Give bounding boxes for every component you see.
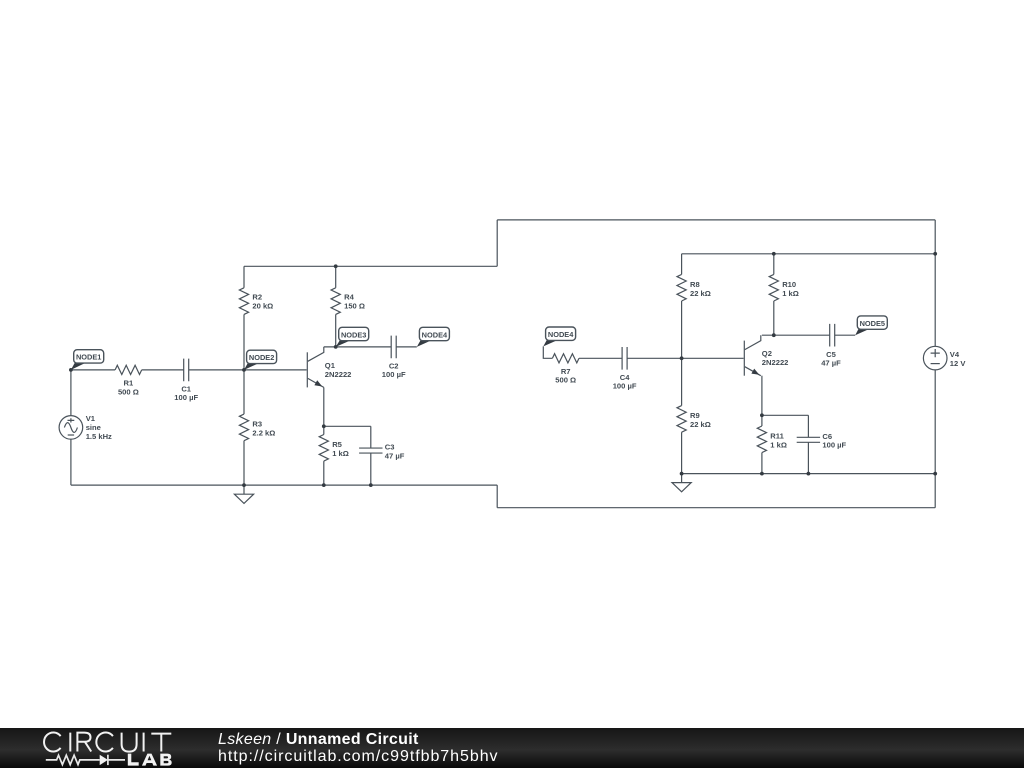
svg-text:C5: C5: [826, 350, 836, 359]
wire emitter junction to C6: [762, 414, 809, 416]
wire node1 vertical to V1: [70, 370, 72, 416]
wire node2 to R3: [243, 370, 245, 414]
svg-text:R1: R1: [124, 379, 134, 388]
svg-text:Q2: Q2: [762, 349, 772, 358]
wire Q2 collector to C5: [762, 334, 830, 336]
svg-text:150 Ω: 150 Ω: [344, 302, 365, 311]
node NODE3 flag: [336, 327, 369, 347]
wire Q1 collector to C2: [324, 346, 391, 348]
wire ground stub right: [681, 474, 683, 483]
svg-text:100 µF: 100 µF: [382, 370, 406, 379]
svg-text:R7: R7: [561, 367, 571, 376]
junction bottom rail at V4 column: [933, 472, 937, 476]
capacitor C1: [184, 359, 189, 382]
junction node1: [69, 368, 73, 372]
svg-text:1 kΩ: 1 kΩ: [332, 449, 349, 458]
svg-text:1 kΩ: 1 kΩ: [782, 289, 799, 298]
junction emitter R11 C6: [760, 413, 764, 417]
wire C6 top lead: [807, 415, 809, 437]
wire inner top rail right stage: [682, 253, 936, 255]
resistor R9: [677, 406, 686, 433]
label C6 value: [822, 432, 846, 450]
svg-text:C1: C1: [181, 384, 191, 393]
footer bar: [0, 728, 1024, 768]
svg-text:500 Ω: 500 Ω: [555, 376, 576, 385]
junction ground rail at R5: [322, 483, 326, 487]
svg-text:1.5 kHz: 1.5 kHz: [86, 432, 112, 441]
junction ground rail at C3: [369, 483, 373, 487]
ground left stage: [234, 494, 253, 503]
svg-text:R10: R10: [782, 280, 796, 289]
junction R4 top rail: [334, 264, 338, 268]
wire V1 bottom to ground rail: [70, 439, 72, 485]
voltage source V4: [923, 346, 947, 370]
wire node2 to Q1 base: [244, 369, 307, 371]
node NODE1 flag: [71, 350, 104, 370]
wire C1 to node2: [189, 369, 244, 371]
wire C3 top lead: [370, 426, 372, 448]
label R10 value: [782, 280, 799, 298]
svg-text:1 kΩ: 1 kΩ: [770, 441, 787, 450]
wire node1 to R1: [71, 369, 115, 371]
resistor R10: [769, 274, 778, 301]
svg-text:47 µF: 47 µF: [821, 359, 841, 368]
svg-text:R9: R9: [690, 411, 700, 420]
svg-text:C4: C4: [620, 373, 630, 382]
junction Q2 collector R10: [772, 333, 776, 337]
wire inner bottom rail right stage: [682, 473, 936, 475]
wire outer left vertical bottom: [496, 485, 498, 508]
label R2 value: [252, 292, 273, 310]
wire base junction to Q2: [682, 357, 744, 359]
wire top rail left stage: [244, 265, 497, 267]
wire C4 to base junction: [627, 357, 682, 359]
label V1 value: [86, 414, 112, 441]
svg-text:R5: R5: [332, 440, 342, 449]
CircuitLab logo: [0, 728, 220, 768]
wire R11 top lead: [761, 415, 763, 426]
junction bottom rail at C6: [807, 472, 811, 476]
resistor R4: [331, 288, 340, 315]
svg-text:C2: C2: [389, 361, 399, 370]
voltage source V1: [59, 416, 83, 440]
capacitor C5: [830, 324, 835, 347]
wire C2 to NODE4 tip: [396, 346, 417, 348]
svg-text:2N2222: 2N2222: [762, 358, 789, 367]
svg-text:22 kΩ: 22 kΩ: [690, 289, 711, 298]
svg-text:22 kΩ: 22 kΩ: [690, 420, 711, 429]
svg-text:C6: C6: [822, 432, 832, 441]
wire V4 bottom vertical: [934, 370, 936, 508]
wire R11 bottom lead: [761, 453, 763, 474]
svg-text:Q1: Q1: [325, 361, 336, 370]
svg-text:V1: V1: [86, 414, 96, 423]
svg-text:sine: sine: [86, 423, 101, 432]
node NODE4 flag (output of stage 1): [417, 327, 450, 347]
wire C6 bottom lead: [807, 442, 809, 473]
label C2 value: [382, 361, 406, 379]
footer title text: [218, 732, 499, 766]
wire R9 bottom lead: [681, 432, 683, 473]
label R4 value: [344, 292, 365, 310]
wire bottom rail left stage: [71, 484, 497, 486]
svg-text:100 µF: 100 µF: [613, 382, 637, 391]
svg-text:NODE5: NODE5: [860, 319, 885, 328]
ground right stage: [672, 483, 691, 492]
junction emitter R5 C3: [322, 424, 326, 428]
label R9 value: [690, 411, 711, 429]
wire Q2 emitter vertical: [761, 376, 763, 416]
capacitor C2: [391, 336, 396, 359]
wire outer right vertical to V4: [934, 220, 936, 347]
svg-text:R2: R2: [252, 292, 262, 301]
node NODE4 flag (input of stage 2): [543, 327, 575, 346]
node NODE2 flag: [244, 350, 277, 370]
wire C3 bottom lead: [370, 453, 372, 485]
resistor R5: [319, 435, 328, 462]
wire R8 bottom lead: [681, 301, 683, 358]
capacitor C6: [797, 437, 820, 442]
wire R5 bottom lead: [323, 461, 325, 485]
label Q1 value: [325, 361, 352, 379]
resistor R1: [115, 365, 142, 374]
svg-text:47 µF: 47 µF: [385, 451, 405, 460]
wire base junction to R9: [681, 358, 683, 405]
wire R10 bottom lead: [773, 301, 775, 335]
svg-text:NODE4: NODE4: [548, 330, 574, 339]
wire outer bottom rail: [497, 507, 935, 509]
wire R5 top lead: [323, 426, 325, 434]
label C5 value: [821, 350, 841, 368]
wire R1 to C1: [142, 369, 184, 371]
wire ground stub left: [243, 485, 245, 494]
junction node3: [334, 345, 338, 349]
wire R4 top lead: [335, 266, 337, 288]
label V4 value: [950, 350, 967, 368]
svg-text:NODE3: NODE3: [341, 330, 366, 339]
svg-text:NODE2: NODE2: [249, 353, 274, 362]
transistor Q2: [744, 335, 761, 376]
label R1 value: [118, 379, 139, 397]
svg-text:12 V: 12 V: [950, 359, 967, 368]
svg-text:R3: R3: [252, 420, 262, 429]
wire outer left vertical top: [496, 220, 498, 266]
wire R2 bottom lead to node2: [243, 314, 245, 370]
junction bottom rail at R9: [680, 472, 684, 476]
label Q2 value: [762, 349, 789, 367]
label C1 value: [174, 384, 198, 402]
svg-text:C3: C3: [385, 443, 395, 452]
svg-text:100 µF: 100 µF: [174, 393, 198, 402]
wire emitter junction to C3: [324, 425, 371, 427]
resistor R8: [677, 274, 686, 301]
wire R8 top lead: [681, 254, 683, 275]
svg-text:NODE1: NODE1: [76, 353, 101, 362]
svg-text:V4: V4: [950, 350, 960, 359]
svg-text:100 µF: 100 µF: [822, 441, 846, 450]
capacitor C4: [622, 347, 627, 370]
wire NODE4 flag to R7: [543, 346, 552, 358]
label C4 value: [613, 373, 637, 391]
wire R4 bottom lead to node3: [335, 314, 337, 347]
svg-text:R11: R11: [770, 431, 784, 440]
junction ground rail at R3: [242, 483, 246, 487]
wire R3 bottom lead to rail: [243, 441, 245, 485]
junction bottom rail at R11: [760, 472, 764, 476]
svg-text:20 kΩ: 20 kΩ: [252, 302, 273, 311]
node NODE5 flag: [855, 316, 887, 335]
resistor R11: [757, 426, 766, 453]
svg-text:2N2222: 2N2222: [325, 370, 352, 379]
svg-text:R4: R4: [344, 292, 354, 301]
junction base R8 R9: [680, 356, 684, 360]
label C3 value: [385, 443, 405, 461]
wire R2 top lead: [243, 266, 245, 288]
capacitor C3: [359, 448, 382, 453]
transistor Q1: [307, 347, 324, 388]
label R3 value: [252, 420, 275, 438]
wire outer top rail: [497, 219, 935, 221]
resistor R3: [239, 414, 248, 441]
wire R10 top lead: [773, 254, 775, 275]
svg-text:500 Ω: 500 Ω: [118, 387, 139, 396]
resistor R7: [552, 354, 579, 363]
label R7 value: [555, 367, 576, 385]
wire R7 to C4: [579, 357, 622, 359]
junction node2: [242, 368, 246, 372]
wire Q1 emitter vertical: [323, 387, 325, 426]
junction top rail at V4 column: [933, 252, 937, 256]
svg-text:R8: R8: [690, 280, 700, 289]
label R8 value: [690, 280, 711, 298]
label R11 value: [770, 431, 787, 449]
wire C5 to NODE5 tip: [835, 334, 856, 336]
svg-text:2.2 kΩ: 2.2 kΩ: [252, 429, 275, 438]
label R5 value: [332, 440, 349, 458]
resistor R2: [239, 288, 248, 315]
svg-text:NODE4: NODE4: [422, 330, 448, 339]
junction R10 top rail: [772, 252, 776, 256]
